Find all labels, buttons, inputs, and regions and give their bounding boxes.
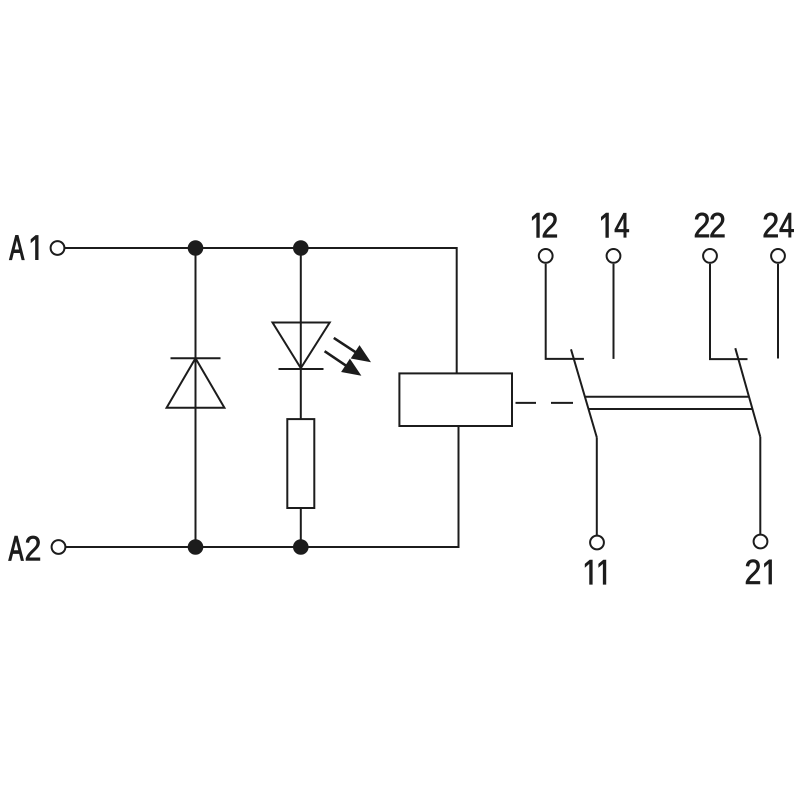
terminal 12 [539,249,553,263]
wire common pole 1 to terminal 11 [596,437,598,535]
diode V1 [167,358,225,408]
wire terminal 22 to NC contact [710,264,748,359]
terminal label 12 [532,213,557,237]
LED D1 [273,323,330,369]
wire terminal 24 NO stub [777,264,779,359]
wire common pole 2 to terminal 21 [759,437,761,534]
contact actuator bar line 1 [585,396,749,398]
junction A1 / diode branch [188,240,204,256]
terminal label A2 [9,536,40,560]
contact actuator bar line 2 [589,408,752,410]
terminal 24 [771,249,785,263]
terminal A1 [51,241,65,255]
wire terminal 12 to NC contact [546,264,584,359]
terminal label 22 [695,213,724,237]
terminal 14 [607,249,621,263]
junction A1 / LED branch [293,240,309,256]
junction A2 / diode branch [188,539,204,555]
LED D1 cathode bar [279,368,324,370]
terminal label 11 [585,560,606,584]
terminal A2 [52,540,66,554]
mechanical linkage (dashed) [516,402,574,404]
terminal 22 [703,249,717,263]
terminal label A1 [10,235,39,259]
wire LED branch [300,248,302,547]
switch blade pole 2 [735,348,760,437]
wire A1 rail to coil [65,248,457,373]
terminal label 21 [746,560,771,584]
junction A2 / LED branch [293,539,309,555]
terminal label 14 [601,213,628,237]
switch blade pole 1 [571,349,597,437]
terminal label 24 [764,213,794,237]
diode V1 cathode bar [171,357,221,359]
resistor R1 [287,419,314,508]
wire A2 rail to coil [66,426,459,547]
terminal 11 [590,536,604,550]
wire diode branch [195,248,197,547]
wire terminal 14 NO stub [613,264,615,359]
LED light arrow 1 [334,338,371,362]
terminal 21 [754,535,768,549]
relay coil K1 [399,373,512,426]
LED light arrow 2 [325,351,362,376]
